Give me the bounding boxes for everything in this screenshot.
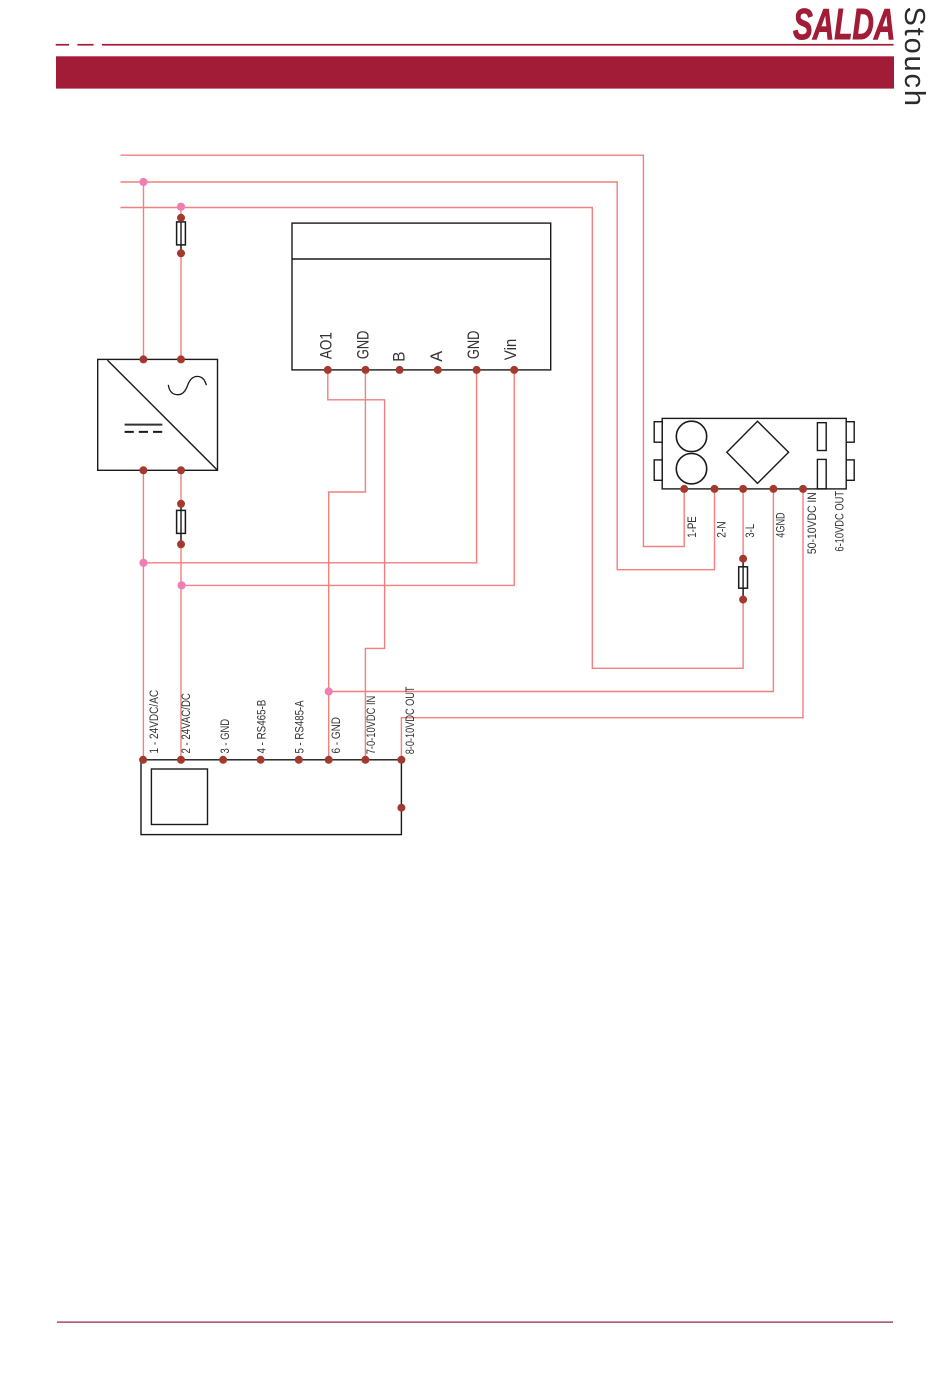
svg-text:A: A bbox=[428, 351, 446, 362]
junction pink secondary 2 bbox=[178, 581, 186, 589]
junction pink GND bbox=[325, 687, 333, 695]
svg-text:SALDA: SALDA bbox=[793, 0, 895, 48]
header rule bbox=[102, 44, 894, 46]
node panel side bbox=[397, 804, 405, 812]
node panel terminal 2 bbox=[177, 756, 185, 764]
air unit left tab 2 bbox=[654, 460, 662, 480]
node controller AO1 bbox=[324, 366, 332, 374]
wire controller GND to panel terminal 6 bbox=[329, 370, 366, 760]
air unit fan circle 1 bbox=[676, 421, 706, 451]
svg-text:AO1: AO1 bbox=[318, 332, 336, 359]
wire unit 5 0-10VDC IN to panel terminal 8 bbox=[401, 489, 803, 760]
header dash 2 bbox=[77, 44, 93, 46]
svg-text:2 - 24VAC/DC: 2 - 24VAC/DC bbox=[181, 693, 193, 753]
svg-text:1-PE: 1-PE bbox=[687, 516, 699, 538]
wire transformer secondary 1 to panel terminal 1 bbox=[142, 470, 144, 760]
node panel terminal 4 bbox=[257, 756, 265, 764]
svg-text:6 - GND: 6 - GND bbox=[331, 717, 343, 754]
node controller A bbox=[434, 366, 442, 374]
node unit 3-L bbox=[739, 485, 747, 493]
header dash 1 bbox=[56, 44, 69, 46]
fuse F3 wire bbox=[742, 559, 744, 600]
stouch panel box bbox=[141, 760, 401, 835]
svg-text:1 - 24VDC/AC: 1 - 24VDC/AC bbox=[149, 690, 161, 754]
node panel terminal 5 bbox=[295, 756, 303, 764]
node fuse F3 bottom bbox=[739, 596, 747, 604]
controller divider bbox=[292, 258, 551, 260]
air unit connector slot 1 bbox=[817, 423, 826, 451]
fuse F2 wire bbox=[180, 504, 182, 545]
node panel terminal 8 bbox=[397, 756, 405, 764]
controller box bbox=[292, 223, 551, 370]
node panel terminal 7 bbox=[361, 756, 369, 764]
node unit 4GND bbox=[769, 485, 777, 493]
node panel terminal 1 bbox=[139, 756, 147, 764]
svg-text:2-N: 2-N bbox=[716, 521, 728, 537]
wire branch to controller Vin bbox=[182, 370, 515, 586]
wire transformer secondary 2 to panel terminal 2 via fuse F2 bbox=[180, 470, 182, 760]
transformer DC solid line bbox=[125, 424, 163, 426]
node fuse F1 top bbox=[177, 214, 185, 222]
node fuse F1 bottom bbox=[177, 249, 185, 257]
stouch panel screen bbox=[151, 769, 207, 825]
junction pink secondary 1 bbox=[139, 559, 147, 567]
node transformer secondary right bbox=[177, 466, 185, 474]
transformer diagonal bbox=[108, 360, 217, 469]
svg-text:5 - RS485-A: 5 - RS485-A bbox=[295, 700, 307, 753]
wire L: mains to unit 3-L via fuse bbox=[121, 208, 744, 669]
wire transformer primary left bbox=[143, 182, 145, 359]
fuse F1 body bbox=[177, 222, 186, 245]
svg-text:4 - RS465-B: 4 - RS465-B bbox=[257, 699, 269, 753]
svg-text:B: B bbox=[391, 352, 409, 362]
node panel terminal 3 bbox=[219, 756, 227, 764]
node unit 1-PE bbox=[680, 485, 688, 493]
node controller GND 2 bbox=[473, 366, 481, 374]
svg-text:GND: GND bbox=[465, 330, 483, 359]
air unit right tab 2 bbox=[846, 460, 854, 480]
node panel terminal 6 bbox=[325, 756, 333, 764]
junction pink N bbox=[139, 178, 147, 186]
svg-text:6-10VDC OUT: 6-10VDC OUT bbox=[835, 491, 847, 552]
header bar bbox=[56, 56, 894, 88]
node controller Vin bbox=[510, 366, 518, 374]
air unit fan circle 2 bbox=[676, 454, 706, 484]
wire transformer primary right via fuse F1 bbox=[180, 208, 182, 360]
node controller B bbox=[396, 366, 404, 374]
svg-text:50-10VDC IN: 50-10VDC IN bbox=[807, 492, 819, 554]
air unit right tab 1 bbox=[846, 422, 854, 443]
svg-text:3-L: 3-L bbox=[745, 523, 757, 537]
transformer T1 body bbox=[98, 359, 218, 470]
wire branch to unit 4GND bbox=[329, 489, 774, 692]
svg-text:4GND: 4GND bbox=[775, 512, 787, 537]
fuse F1 wire bbox=[180, 218, 182, 254]
node transformer primary left bbox=[139, 355, 147, 363]
wire branch to controller GND bbox=[144, 370, 477, 563]
svg-text:3 - GND: 3 - GND bbox=[220, 719, 232, 754]
node unit 5 bbox=[799, 485, 807, 493]
node controller GND 1 bbox=[362, 366, 370, 374]
wire PE: mains to unit 1-PE bbox=[121, 155, 685, 546]
transformer DC dashed line bbox=[125, 431, 163, 433]
air unit body bbox=[662, 418, 846, 489]
fuse F3 body bbox=[739, 567, 748, 588]
svg-text:GND: GND bbox=[355, 330, 373, 359]
wire controller AO1 to panel terminal 7 bbox=[328, 370, 385, 760]
svg-text:7-0-10VDC IN: 7-0-10VDC IN bbox=[366, 696, 378, 755]
air unit left tab 1 bbox=[654, 422, 662, 443]
air unit connector slot 2 bbox=[817, 459, 826, 489]
air unit heat exchanger diamond bbox=[727, 421, 789, 483]
junction pink L bbox=[177, 203, 185, 211]
node transformer secondary left bbox=[139, 466, 147, 474]
transformer AC sine bbox=[168, 376, 206, 394]
svg-text:Stouch: Stouch bbox=[898, 7, 930, 107]
node transformer primary right bbox=[177, 355, 185, 363]
node fuse F3 top bbox=[739, 555, 747, 563]
wire N: mains to unit 2-N bbox=[121, 182, 715, 570]
svg-text:8-0-10VDC OUT: 8-0-10VDC OUT bbox=[405, 687, 417, 755]
fuse F2 body bbox=[177, 510, 186, 533]
node unit 2-N bbox=[711, 485, 719, 493]
node fuse F2 top bbox=[177, 500, 185, 508]
footer rule bbox=[57, 1322, 893, 1323]
node fuse F2 bottom bbox=[177, 540, 185, 548]
svg-text:Vin: Vin bbox=[502, 339, 520, 361]
